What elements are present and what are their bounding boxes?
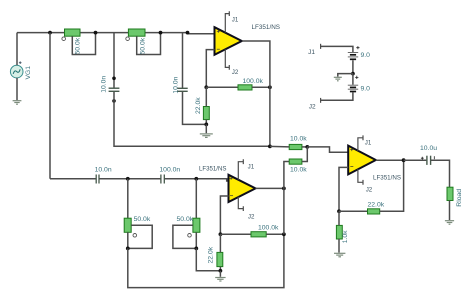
wire R4 to ground node <box>205 120 207 125</box>
svg-text:J1: J1 <box>308 49 315 56</box>
wire node to pot P2 <box>195 179 197 218</box>
R1 wiper terminal circle <box>62 37 66 41</box>
resistor R6 22.0k (to ground) <box>217 252 223 266</box>
svg-text:22.0k: 22.0k <box>207 246 214 263</box>
node: rail to left rail junction <box>48 31 52 35</box>
svg-text:LF351/NS: LF351/NS <box>373 174 402 181</box>
capacitor C2 10.0n <box>178 88 188 91</box>
U2 power pin J1 <box>238 159 243 180</box>
node C4 / pot P2 <box>194 177 198 181</box>
U3 power pin J2 <box>358 169 363 185</box>
svg-text:VG1: VG1 <box>25 66 32 80</box>
svg-text:J2: J2 <box>232 69 239 76</box>
resistor R9 22.0k (feedback) <box>368 209 380 214</box>
battery B2 plus mark <box>355 76 358 79</box>
ground (battery midpoint) <box>334 77 342 81</box>
svg-text:10.0k: 10.0k <box>290 167 307 174</box>
voltage source VG1 <box>10 65 23 78</box>
wire stage2 input rail <box>50 179 229 181</box>
wire VG1 top to rail <box>16 33 18 66</box>
svg-text:10.0n: 10.0n <box>95 167 112 174</box>
node U3 inv input <box>337 209 341 213</box>
svg-text:10.0n: 10.0n <box>172 76 179 93</box>
U1 power pin J2 <box>225 49 229 69</box>
resistor R7 10.0k (from stage 1) <box>289 144 302 149</box>
capacitor C4 100.0n <box>161 175 164 184</box>
svg-text:J1: J1 <box>232 16 239 23</box>
wire U3 inverting input stub <box>339 167 348 211</box>
node above C1 <box>112 77 116 81</box>
wire C5 to Rload <box>431 160 450 187</box>
wire R8 to summing node <box>302 147 307 162</box>
wire ground stub <box>205 124 207 133</box>
wire R1 wiper loop <box>72 33 95 55</box>
svg-text:10.0u: 10.0u <box>420 145 437 152</box>
wire R10 to ground <box>338 239 340 253</box>
wire B2 to connector J2 <box>321 92 353 100</box>
wire P2 bottom <box>195 232 197 248</box>
node P1 bottom <box>126 247 130 251</box>
P1 wiper terminal circle <box>133 234 137 238</box>
wire U1 output <box>242 41 270 146</box>
wire node to R9 <box>339 210 368 212</box>
P2 wiper terminal circle <box>188 234 192 238</box>
resistor R4 22.0k (to ground) <box>203 107 209 120</box>
op-amp U2 LF351/NS <box>229 175 256 202</box>
ground (stage 2) <box>215 278 225 282</box>
U2 power pin J2 <box>238 197 243 211</box>
node output column / summing run <box>268 145 272 149</box>
svg-text:J1: J1 <box>365 139 372 146</box>
wire R2 wiper loop <box>137 33 161 55</box>
node U1 inv input / feedback <box>204 85 208 89</box>
wire output column up to R8 <box>284 162 289 189</box>
C5 plus mark <box>421 157 424 160</box>
node output column / feedback <box>268 85 272 89</box>
resistor R8 10.0k (from stage 2) <box>289 159 302 164</box>
capacitor C3 10.0n <box>96 175 99 184</box>
resistor R2 50.0k (potentiometer) <box>128 29 145 36</box>
wire left rail (down to stage 2) <box>49 33 51 179</box>
svg-text:50.0k: 50.0k <box>134 216 151 223</box>
ground (stage 3) <box>334 253 345 256</box>
node R2 wiper/rail <box>159 31 163 35</box>
wire output column down to feedback node <box>283 188 285 234</box>
VG1 plus mark <box>19 61 22 64</box>
svg-text:22.0k: 22.0k <box>368 202 385 209</box>
node on rail at C2 branch <box>186 31 190 35</box>
wire inv node to R4 <box>205 87 207 106</box>
ground (stage 1) <box>200 134 213 138</box>
node output column / feedback <box>282 232 286 236</box>
wire P2 wiper loop <box>173 225 196 248</box>
svg-text:9.0: 9.0 <box>361 85 371 92</box>
wire inv node to R10 <box>338 211 340 225</box>
svg-text:50.0k: 50.0k <box>74 37 81 54</box>
wire Rload to ground <box>449 201 451 221</box>
svg-text:J2: J2 <box>309 104 316 111</box>
resistor R5 100.0k (feedback) <box>251 232 266 237</box>
svg-text:LF351/NS: LF351/NS <box>199 165 227 172</box>
battery B2 9.0 <box>348 85 358 91</box>
wire P2 node to ground node <box>196 248 220 270</box>
wire mid node to B2 <box>352 74 354 85</box>
wire U2 output <box>256 187 284 189</box>
node C3 / pot P1 <box>126 177 130 181</box>
svg-text:22.0k: 22.0k <box>195 97 202 114</box>
node R4 bottom / C2 / ground <box>204 123 208 127</box>
capacitor C5 10.0u (polarized) <box>427 156 431 165</box>
wire U2 inverting input stub <box>220 196 228 234</box>
node R6 bottom / P2 / ground <box>219 269 223 273</box>
wire inv node to R6 <box>219 234 221 252</box>
wire node to R3 <box>206 86 238 88</box>
wire VG1 bottom <box>16 78 18 100</box>
node R1 wiper/rail <box>94 31 98 35</box>
potentiometer P1 50.0k <box>124 218 131 232</box>
wire R6 to ground node <box>219 267 221 271</box>
svg-text:J2: J2 <box>248 213 255 220</box>
wire R3 to output column <box>252 86 270 88</box>
wire top rail <box>17 33 215 34</box>
wire C2 bottom to ground node <box>183 92 207 125</box>
svg-text:50.0k: 50.0k <box>177 216 194 223</box>
node summing <box>305 145 309 149</box>
wire B1 to mid node <box>352 60 354 73</box>
svg-text:100.0k: 100.0k <box>258 225 279 232</box>
wire R9 to output column <box>380 160 404 211</box>
resistor Rload <box>447 187 453 200</box>
svg-text:50.0k: 50.0k <box>140 37 147 54</box>
wire C1 bottom to long feedback run <box>114 92 270 146</box>
wire mid node to ground <box>338 74 353 77</box>
R2 wiper terminal circle <box>126 37 130 41</box>
wire cap C2 branch (down from rail) <box>182 33 184 88</box>
resistor R3 100.0k (feedback) <box>238 85 252 90</box>
svg-text:J1: J1 <box>248 163 255 170</box>
node battery midpoint <box>351 72 355 76</box>
wire output to C5 <box>404 159 427 161</box>
svg-text:J2: J2 <box>366 186 373 193</box>
wire P1 wiper loop <box>128 225 152 248</box>
battery B1 plus mark <box>356 46 359 49</box>
wire J1 to battery B1 <box>321 46 353 52</box>
wire P1 bottom <box>127 232 129 248</box>
U1 power pin J1 <box>225 11 229 32</box>
svg-text:LF351/NS: LF351/NS <box>252 24 281 31</box>
wire P1 node down to bottom rail <box>128 234 284 287</box>
ground (under VG1) <box>13 101 22 105</box>
wire U3 output <box>376 159 404 161</box>
svg-text:10.0n: 10.0n <box>100 76 107 93</box>
U3 power pin J1 <box>358 135 363 151</box>
svg-text:100.0k: 100.0k <box>243 78 264 85</box>
svg-text:1.0k: 1.0k <box>342 230 349 243</box>
node below C1 <box>112 99 116 103</box>
node U3 output <box>402 158 406 162</box>
wire ground stub (stage 2) <box>219 271 221 277</box>
node P2 bottom <box>194 247 198 251</box>
svg-text:10.0k: 10.0k <box>290 136 307 143</box>
resistor R1 50.0k (potentiometer) <box>65 29 81 36</box>
svg-text:Rload: Rload <box>456 189 463 207</box>
wire summing node to U3 non-inv input <box>307 147 348 152</box>
capacitor C1 10.0n <box>109 88 120 91</box>
svg-text:9.0: 9.0 <box>361 52 371 59</box>
op-amp U3 LF351/NS <box>348 146 376 175</box>
connector pin J2 <box>320 98 322 103</box>
potentiometer P2 50.0k <box>193 218 200 232</box>
battery B1 9.0 <box>348 53 358 60</box>
wire node to R5 <box>220 233 251 235</box>
C5 right tick <box>433 156 435 159</box>
node U2 inv input / feedback <box>219 232 223 236</box>
wire node to R7 <box>270 145 289 148</box>
wire R7 to summing node <box>302 146 307 148</box>
svg-text:100.0n: 100.0n <box>159 167 180 174</box>
node U2 output <box>282 187 286 191</box>
resistor R10 1.0k (to ground) <box>336 225 342 239</box>
op-amp U1 LF351/NS <box>215 27 242 55</box>
wire cap C1 branch (down from rail) <box>113 33 115 88</box>
ground (Rload) <box>445 221 454 225</box>
wire U1 inverting input stub <box>206 50 214 88</box>
connector pin J1 <box>320 44 322 49</box>
wire node to pot P1 <box>127 179 129 218</box>
wire R5 to output column <box>266 233 284 235</box>
